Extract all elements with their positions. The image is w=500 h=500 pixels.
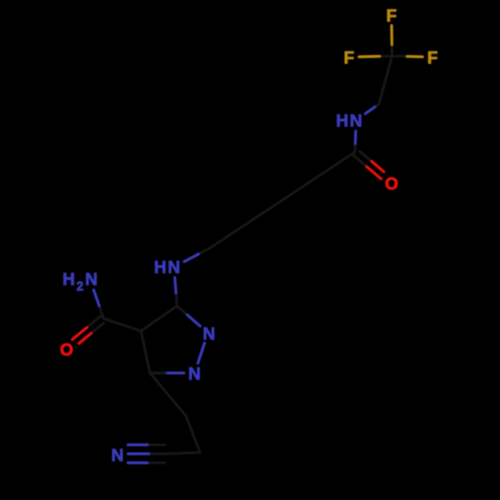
svg-text:F: F [344,48,355,68]
chain bond 1 [307,152,355,184]
svg-text:H: H [62,269,74,289]
bond CH2b-CN [168,453,200,454]
bond CH2-NH left [198,248,210,254]
double bond C=O bottom [87,316,101,328]
svg-text:N: N [350,111,362,131]
bond NH-C5 ring [175,278,176,296]
svg-text:F: F [427,48,438,68]
svg-text:N: N [85,269,97,289]
svg-text:F: F [386,6,397,26]
triple bond C#N [149,452,168,455]
svg-text:O: O [385,174,398,194]
bond C-F right [392,55,407,58]
ring bond N1-N2 [198,343,205,363]
ring bond C3-C4 [141,331,150,373]
ring bond C4-C5 double [141,306,177,331]
svg-text:N: N [188,364,200,384]
svg-text:H: H [336,111,348,131]
bond CF3C-CH2 [379,56,392,104]
ring bond N2-C3 [165,372,184,375]
chain bond 3 [210,216,258,248]
svg-text:N: N [111,445,123,465]
bond CH2-NH [375,104,379,107]
svg-text:H: H [154,257,166,277]
ring bond C5-N1 [177,306,187,315]
bond CH2a-CH2b [186,416,200,453]
svg-text:O: O [60,340,73,360]
svg-text:2: 2 [77,280,84,294]
chain bond 2 [258,184,306,216]
bond amideC-NH2 [99,306,103,319]
double bond C=O top [353,155,367,167]
bond C3-CH2a [150,373,186,416]
bond C-F top [390,44,393,56]
bond C4-amideC [104,319,142,332]
svg-text:N: N [203,324,215,344]
svg-text:N: N [168,257,180,277]
bond NH-C(=O) [354,131,357,146]
bond C-F left [380,55,393,58]
